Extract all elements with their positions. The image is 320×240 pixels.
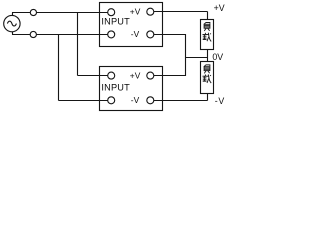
load RL1 (top load box) (201, 20, 214, 50)
wire: junction on bottom lead down to PSU2 input 2 (59, 35, 112, 101)
load RL2 (bottom load box) (201, 62, 214, 94)
terminal on bottom lead (30, 31, 36, 37)
wire: junction on top lead down to PSU2 input 1 (78, 13, 112, 76)
svg-text:-V: -V (131, 95, 140, 105)
svg-text:-V: -V (215, 96, 225, 106)
terminal on top lead (30, 9, 36, 15)
U1 +V output terminal (147, 8, 154, 15)
svg-text:0V: 0V (212, 52, 223, 62)
svg-text:INPUT: INPUT (101, 83, 130, 93)
wire: PSU1 -V output to series link with PSU2 +V (150, 34, 185, 76)
value label: RL2 load text "zai" (Chinese, drawn as paths) (203, 74, 212, 83)
U2 +V output terminal (147, 72, 154, 79)
U1 -V output terminal (147, 31, 154, 38)
U2 -V output terminal (147, 97, 154, 104)
value label: RL1 load text "fu" (Chinese, drawn as paths) (204, 23, 210, 32)
ac source G1 (4, 15, 20, 31)
U2 input terminal 1 (108, 72, 115, 79)
svg-text:-V: -V (131, 29, 140, 39)
wire: AC source top lead to PSU1 input 1 (12, 13, 111, 16)
power supply U1 (top INPUT block) (100, 3, 163, 47)
U2 input terminal 2 (108, 97, 115, 104)
svg-text:+V: +V (130, 70, 141, 80)
svg-text:INPUT: INPUT (101, 17, 130, 27)
svg-text:+V: +V (130, 6, 141, 16)
value label: RL2 load text "fu" (Chinese, drawn as paths) (204, 65, 210, 74)
svg-text:+V: +V (214, 3, 225, 13)
wire: PSU2 -V output to -V rail and load 2 bottom (150, 94, 207, 101)
power supply U2 (bottom INPUT block) (100, 67, 163, 111)
U1 input terminal 1 (108, 9, 115, 16)
wire: PSU1 +V output to +V rail and load 1 top (150, 12, 207, 20)
wire: 0V rail from series link to loads midpoint (186, 50, 208, 62)
value label: RL1 load text "zai" (Chinese, drawn as paths) (203, 33, 212, 42)
U1 input terminal 2 (108, 31, 115, 38)
wire: AC source bottom lead to PSU1 input 2 (12, 32, 111, 35)
